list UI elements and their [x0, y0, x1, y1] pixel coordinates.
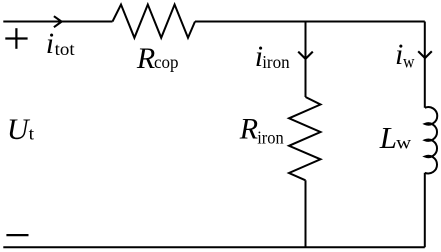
- svg-text:i: i: [46, 27, 54, 60]
- svg-text:L: L: [379, 120, 397, 155]
- wire top-middle segment: [195, 21, 425, 23]
- plus terminal symbol: [5, 28, 27, 49]
- current arrow i_tot: [54, 16, 62, 27]
- minus terminal symbol: [6, 234, 28, 236]
- svg-text:t: t: [29, 124, 35, 144]
- svg-text:iron: iron: [257, 128, 284, 148]
- svg-text:w: w: [403, 51, 415, 71]
- resistor R1 zigzag (R_cop): [113, 5, 196, 38]
- wire middle-branch bottom: [305, 180, 307, 247]
- svg-text:w: w: [396, 133, 411, 153]
- current arrow i_w: [418, 51, 432, 58]
- svg-text:R: R: [136, 42, 155, 75]
- wire top-left segment: [3, 21, 112, 23]
- svg-text:tot: tot: [55, 39, 75, 59]
- current arrow i_iron: [298, 52, 313, 59]
- node top-middle junction wire down to R_iron: [305, 22, 307, 98]
- wire bottom: [3, 246, 425, 248]
- svg-text:U: U: [7, 113, 31, 146]
- inductor L1 coil (L_w): [425, 107, 437, 173]
- wire right-branch bottom: [424, 173, 426, 247]
- resistor R2 zigzag (R_iron): [289, 97, 321, 180]
- svg-text:cop: cop: [154, 52, 179, 72]
- wire right-branch top: [424, 22, 426, 108]
- svg-text:iron: iron: [262, 52, 290, 72]
- svg-text:R: R: [239, 113, 258, 146]
